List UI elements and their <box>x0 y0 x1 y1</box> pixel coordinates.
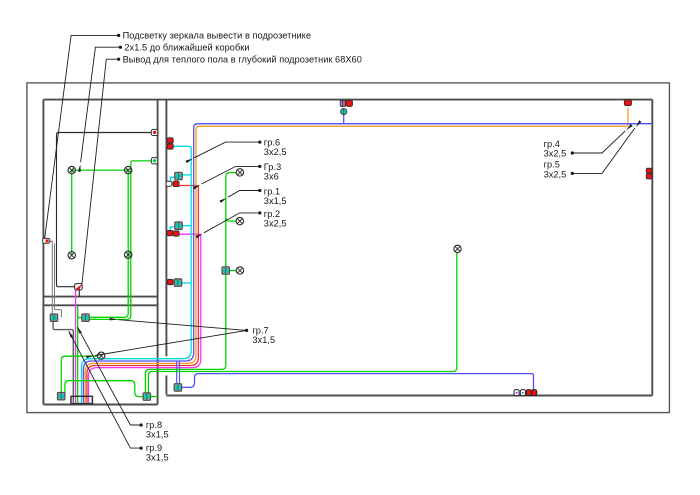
svg-text:3х2,5: 3х2,5 <box>264 218 287 228</box>
svg-text:гр.6: гр.6 <box>264 137 280 147</box>
svg-text:3х1,5: 3х1,5 <box>146 430 169 440</box>
svg-text:Подсветку зеркала вывести в по: Подсветку зеркала вывести в подрозетнике <box>123 31 311 41</box>
svg-text:гр.5: гр.5 <box>544 159 560 169</box>
svg-text:гр.1: гр.1 <box>264 186 280 196</box>
svg-text:2х1.5 до ближайшей коробки: 2х1.5 до ближайшей коробки <box>124 42 249 52</box>
svg-text:гр.7: гр.7 <box>252 325 268 335</box>
svg-text:Гр.3: Гр.3 <box>264 162 281 172</box>
svg-text:Вывод для теплого пола в глубо: Вывод для теплого пола в глубокий подроз… <box>123 54 362 64</box>
svg-text:3х1,5: 3х1,5 <box>252 335 275 345</box>
svg-text:гр.2: гр.2 <box>264 209 280 219</box>
svg-text:3х1,5: 3х1,5 <box>264 196 287 206</box>
svg-text:3х2,5: 3х2,5 <box>544 149 567 159</box>
svg-text:гр.8: гр.8 <box>146 420 162 430</box>
svg-text:3х2,5: 3х2,5 <box>544 169 567 179</box>
svg-text:3х6: 3х6 <box>264 172 279 182</box>
svg-text:3х2,5: 3х2,5 <box>264 147 287 157</box>
svg-text:гр.4: гр.4 <box>544 139 560 149</box>
svg-text:3х1,5: 3х1,5 <box>146 453 169 463</box>
svg-text:гр.9: гр.9 <box>146 443 162 453</box>
